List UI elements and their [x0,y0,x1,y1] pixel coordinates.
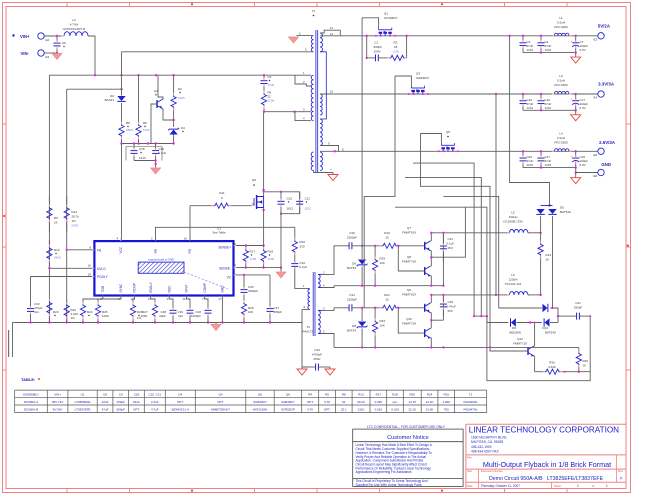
resistor R24 [83,296,103,301]
resistor R22 [66,300,68,304]
svg-text:MILPITAS, CA. 95035: MILPITAS, CA. 95035 [471,440,503,444]
svg-text:R24: R24 [427,392,433,396]
svg-text:Q10: Q10 [406,317,412,321]
wire Q9 emitter out [431,319,443,321]
svg-text:R30: R30 [549,361,555,365]
svg-text:FB: FB [97,248,101,252]
svg-text:10K: 10K [380,324,385,328]
wire R5 to T1 pin3 [264,111,295,113]
wire stair net D [465,207,487,316]
capacitor C1 [367,57,376,59]
svg-text:+: + [571,155,573,159]
wire VIN- [44,52,57,54]
svg-text:16: 16 [184,237,188,241]
ground 2.5V section [571,178,581,184]
wire stair net A [413,163,474,316]
wire VCC net [122,143,174,145]
wire left rail A [48,75,50,322]
capacitor C34 [343,307,349,309]
wire fb loop bottom [487,316,590,381]
transistor Q4 [158,75,163,99]
wire D2 to R8 [121,103,123,119]
svg-text:Opt: Opt [34,310,39,314]
svg-text:See Table: See Table [212,231,226,235]
svg-text:0805: 0805 [72,224,79,228]
svg-text:PA0173: PA0173 [303,330,314,334]
capacitor C16 [540,94,542,101]
svg-text:1206: 1206 [143,128,150,132]
wire SENSE- [236,267,281,269]
svg-text:17: 17 [218,297,222,301]
svg-text:R15: R15 [300,240,306,244]
svg-text:C20, C21: C20, C21 [148,392,161,396]
svg-text:C31: C31 [448,237,454,241]
transformer T2 core [313,272,315,336]
svg-text:0.1uF: 0.1uF [300,265,308,269]
terminal E4 [598,91,604,97]
svg-text:1206: 1206 [268,257,275,261]
resistor R9 [48,196,50,207]
transistor Q10 FMMT718 [398,308,424,333]
terminal E2 VIN+ [12,34,14,36]
svg-text:PA2649NL: PA2649NL [464,400,479,404]
svg-text:R18: R18 [392,392,398,396]
svg-text:R17: R17 [376,392,382,396]
svg-text:R24: R24 [87,310,93,314]
svg-text:E1: E1 [594,38,598,42]
capacitor C20 [280,192,282,202]
svg-text:0.1uF: 0.1uF [447,242,455,246]
capacitor C38 [169,296,173,302]
svg-text:SFST: SFST [185,284,189,292]
capacitor C10 [522,94,524,101]
svg-text:1K: 1K [54,221,58,225]
svg-text:10K: 10K [380,261,385,265]
transistor Q7 FMMT619 [425,241,431,251]
svg-text:R20: R20 [409,392,415,396]
svg-text:22.1: 22.1 [341,407,347,411]
resistor R11 [190,205,214,207]
svg-text:C34: C34 [349,293,355,297]
T1 primary winding W3 [311,152,313,171]
svg-text:E6: E6 [594,174,598,178]
svg-text:0805: 0805 [54,256,61,260]
wire drive loop channel1 [395,207,465,257]
wire fb loop [579,316,590,372]
svg-text:BAT54A: BAT54A [560,210,571,214]
svg-text:PG: PG [188,248,192,253]
wire FB [67,249,95,251]
svg-text:100V: 100V [374,50,381,54]
wire T1 pins9/8 tie [320,146,338,152]
svg-text:GND: GND [221,285,225,293]
U1 pin salmon ticks [120,239,121,242]
svg-text:750: 750 [444,407,449,411]
resistor R27 [151,296,155,301]
resistor R4 [173,75,175,85]
resistor R10 [48,240,50,247]
svg-text:0.015: 0.015 [375,407,383,411]
svg-text:Q6: Q6 [286,392,290,396]
svg-text:GND: GND [601,162,611,167]
wire fb net [474,315,487,317]
svg-text:Date:: Date: [467,484,473,488]
svg-text:R2: R2 [394,41,398,45]
svg-text:OPT.: OPT. [217,400,224,404]
wire 3.3V rail [339,93,602,95]
inductor L6 [496,294,510,296]
svg-text:exposed pad is GND: exposed pad is GND [148,258,174,262]
svg-text:15: 15 [88,273,92,277]
capacitor C33 [30,277,32,304]
wire D5 right down [552,216,554,308]
svg-text:2200pF: 2200pF [347,298,357,302]
customer notice box [353,429,463,486]
capacitor C18 [133,144,135,151]
diode D9 B0520W [487,322,508,324]
svg-text:1210: 1210 [527,106,534,110]
resistor R26 [133,296,135,301]
capacitor C25 [575,151,577,158]
svg-text:Q8: Q8 [407,255,411,259]
svg-text:A: A [620,476,623,481]
inductor L5 [431,232,510,234]
resistor R19 [374,246,376,259]
svg-text:R18: R18 [268,250,274,254]
diode D6 BAT54 [361,246,363,259]
diode D5 BAT54A [541,205,553,207]
wire L2 to bus [88,36,95,75]
svg-text:1206: 1206 [393,50,400,54]
svg-text:25V: 25V [448,246,453,250]
svg-text:R17: R17 [250,250,256,254]
svg-text:File: File [467,455,472,459]
svg-text:D4: D4 [181,126,185,130]
svg-text:0.47uF: 0.47uF [447,305,457,309]
wire channel2 top tie [431,294,496,296]
svg-text:PA2647NL: PA2647NL [464,407,479,411]
svg-text:Si4840DY: Si4840DY [281,400,295,404]
svg-text:OSC: OSC [167,285,171,293]
svg-text:HCP0703-4R7-R: HCP0703-4R7-R [63,27,87,31]
svg-text:1206: 1206 [250,257,257,261]
capacitor C27 [540,151,542,158]
svg-text:1210: 1210 [545,106,552,110]
svg-text:Applications Engineering For A: Applications Engineering For Assistance. [356,470,413,474]
svg-text:VIN-: VIN- [21,51,30,56]
svg-text:1%: 1% [71,316,76,320]
svg-text:OPT.: OPT. [177,400,184,404]
wire T1 pins1/2 box [295,74,311,76]
svg-text:LT3837EFE: LT3837EFE [75,407,91,411]
svg-text:0.1uF: 0.1uF [159,151,167,155]
ground 5V section [575,53,577,58]
svg-text:Q6: Q6 [252,178,256,182]
ground below C6 [52,54,62,60]
svg-text:Thursday, October 11, 2007: Thursday, October 11, 2007 [481,484,520,488]
capacitor C41 [558,315,570,317]
svg-text:15: 15 [385,298,389,302]
svg-text:FMMT619: FMMT619 [402,293,416,297]
svg-text:R11: R11 [219,191,225,195]
svg-text:680pF: 680pF [274,310,283,314]
svg-text:FMMT718: FMMT718 [402,322,416,326]
svg-text:13.0K: 13.0K [426,407,434,411]
svg-text:BZX84C11-V: BZX84C11-V [172,407,189,411]
wire T1 pin3/4 tie [295,112,306,121]
svg-text:ASSEMBLY: ASSEMBLY [23,392,39,396]
wire VC [236,274,270,276]
resistor R12 [66,196,68,207]
svg-text:Document Number: Document Number [481,469,503,473]
capacitor C21 [299,192,301,202]
svg-text:R8: R8 [342,392,346,396]
wire channel2 mid [358,307,380,309]
svg-text:12: 12 [330,32,334,36]
wire channel1 input [322,246,343,275]
inductor L2 [64,32,88,36]
svg-text:9V-36V: 9V-36V [53,407,63,411]
wire 5V lower rail [523,52,576,54]
svg-text:E5: E5 [594,153,598,157]
svg-text:C8: C8 [103,392,107,396]
svg-text:C18: C18 [134,392,140,396]
capacitor C30 [343,245,349,247]
wire bottom bus [13,322,303,324]
svg-text:12.4K: 12.4K [426,400,434,404]
svg-text:L6: L6 [511,273,515,277]
wire D5 left to L5 [528,232,541,234]
svg-text:R23: R23 [380,319,386,323]
zener diode D4 [173,120,175,127]
title block frame [466,424,626,488]
transistor Q8 FMMT718 [398,246,424,271]
capacitor C4 [540,36,542,43]
svg-text:120uH: 120uH [509,278,518,282]
transformer T2 primary winding [308,289,310,310]
svg-text:91: 91 [342,400,346,404]
svg-text:Demo Circuit 950A-A/B: Demo Circuit 950A-A/B [489,476,543,482]
svg-text:330uH: 330uH [509,215,518,219]
svg-text:6.3V: 6.3V [580,106,586,110]
svg-text:PGDLY: PGDLY [97,275,108,279]
svg-text:OPT.: OPT. [133,407,140,411]
svg-text:LTC CONFIDENTIAL - FOR CUSTOME: LTC CONFIDENTIAL - FOR CUSTOMER USE ONLY [367,425,446,429]
svg-text:BAT54: BAT54 [347,329,356,333]
wire 5V to D5 [510,36,550,206]
resistor R14 [540,233,542,244]
svg-text:1630 McCARTHY BLVD.: 1630 McCARTHY BLVD. [471,436,507,440]
svg-text:0.025: 0.025 [375,400,383,404]
capacitor C7 [575,36,577,43]
svg-text:C1: C1 [375,41,379,45]
svg-text:560pF: 560pF [116,407,125,411]
wire SENSE+ [236,245,264,247]
svg-text:11: 11 [233,263,236,267]
resistor R8 [121,119,123,124]
resistor R30 [539,371,545,373]
wire Q9/Q10 stack [430,295,432,303]
svg-text:R26: R26 [443,392,449,396]
resistor R16 [380,245,382,247]
svg-text:OPT.: OPT. [307,400,314,404]
svg-text:1.00K: 1.00K [442,400,450,404]
table grid [15,390,487,413]
svg-text:3300pF: 3300pF [248,289,258,293]
svg-text:VIN+: VIN+ [54,392,61,396]
svg-text:Q12: Q12 [517,337,523,341]
svg-text:C21: C21 [305,196,311,200]
resistor R5 [263,89,265,93]
svg-text:1: 1 [606,484,608,488]
wire T1 pin7 ground [314,171,334,173]
wire T2 pin6 to bus [302,310,310,323]
svg-text:Sheet: Sheet [554,484,561,488]
svg-text:FMMT619: FMMT619 [402,231,416,235]
resistor R17 [245,246,247,250]
svg-text:1812: 1812 [305,207,312,211]
wire Q5 gate [421,134,442,144]
terminal E1 [598,33,604,39]
wire left rail B [66,89,68,322]
svg-text:10: 10 [330,90,334,94]
svg-text:Q4: Q4 [219,392,223,396]
svg-text:1210: 1210 [545,163,552,167]
svg-text:FP2-S200: FP2-S200 [554,25,568,29]
package box C18 C19 [126,147,162,161]
svg-text:1000pF: 1000pF [191,314,201,318]
svg-text:33pF: 33pF [159,314,166,318]
svg-text:R10: R10 [54,248,60,252]
svg-text:1K: 1K [583,364,587,368]
wire secondary gnd to E6 [575,168,577,178]
svg-text:0805: 0805 [126,128,133,132]
svg-text:4.7uF: 4.7uF [151,407,159,411]
resistor R28 [243,297,245,303]
T1 primary winding W1 [311,36,313,52]
svg-text:1210: 1210 [139,156,146,160]
wire main VIN bus [49,74,295,76]
inductor L1 [554,33,569,36]
svg-text:BAT54S: BAT54S [545,331,556,335]
ground at T1 pin5 [289,37,299,43]
svg-text:1%: 1% [72,219,77,223]
svg-text:6.3V: 6.3V [580,163,586,167]
wire Q4 base [151,104,157,144]
svg-text:22.1K: 22.1K [408,407,416,411]
svg-text:R6: R6 [143,121,147,125]
svg-text:150K: 150K [140,314,147,318]
svg-text:E2: E2 [46,38,50,42]
wire 3.3V bias drop [495,94,497,295]
wire caps bottom [134,160,156,162]
capacitor C40 [205,296,208,302]
svg-text:121K: 121K [358,407,365,411]
svg-text:36V-72V: 36V-72V [52,400,64,404]
svg-text:L3: L3 [559,74,563,78]
svg-text:C9: C9 [268,75,272,79]
svg-text:D6: D6 [352,262,356,266]
inductor L4 [554,149,569,152]
capacitor C9 [263,75,265,81]
resistor R2 [387,57,390,59]
svg-text:1: 1 [577,484,579,488]
svg-text:C36: C36 [448,300,454,304]
svg-text:D8: D8 [352,324,356,328]
svg-text:Rev: Rev [618,469,623,473]
wire C32 to T2 pin1 [295,272,308,289]
svg-text:D5: D5 [560,206,564,210]
wire L6 to R14 [528,294,541,296]
svg-text:R29: R29 [583,359,589,363]
svg-text:D4: D4 [178,392,182,396]
svg-text:Q9: Q9 [407,288,411,292]
capacitor C32 [294,258,296,264]
resistor R21 [380,307,382,309]
svg-text:10: 10 [88,264,92,268]
svg-text:L4: L4 [559,132,563,136]
transistor Q9 FMMT619 [425,303,431,313]
svg-text:D9: D9 [512,326,516,330]
svg-text:15: 15 [385,236,389,240]
resistor R25 [98,296,121,301]
T1 primary winding W2 [311,75,313,120]
svg-text:L1: L1 [559,16,563,20]
svg-text:UVLO: UVLO [97,267,106,271]
svg-text:C18: C18 [139,147,145,151]
ground below bus [215,323,217,325]
svg-text:SYNC: SYNC [119,283,123,293]
wire T1 pin6 [122,51,314,53]
wire channel1 mid [358,245,380,247]
svg-text:R13: R13 [358,392,364,396]
svg-text:25V: 25V [448,309,453,313]
svg-text:Multi-Output Flyback in 1/8 Br: Multi-Output Flyback in 1/8 Brick Format [483,460,611,469]
capacitor C37 [269,275,271,303]
svg-text:T1: T1 [469,392,473,396]
T1 secondary S1 [320,33,322,52]
T1 secondary S4 [320,152,322,171]
svg-text:4.7K: 4.7K [324,400,330,404]
wire stair net B [405,178,481,317]
capacitor C17 [575,94,577,101]
transformer T2 secondary bottom [318,310,320,333]
svg-text:250V: 250V [313,357,320,361]
svg-text:VC: VC [227,275,232,279]
wire 3.3V lower rail [523,109,576,111]
svg-text:4.7K: 4.7K [307,407,313,411]
capacitor C39 [187,296,191,302]
svg-text:Q5: Q5 [258,392,262,396]
T1 secondary S3 [320,119,322,146]
ground right of C43 [329,367,331,369]
svg-text:opt.: opt. [392,400,397,404]
svg-text:L2: L2 [72,18,76,22]
svg-text:LT3825EFE/LT3837EFE: LT3825EFE/LT3837EFE [547,476,604,482]
wire T1 pins11/12 [320,30,340,33]
transistor Q12 FMMT718 [528,346,534,357]
svg-text:Opt: Opt [178,314,183,318]
svg-text:E3: E3 [46,55,50,59]
wire stair net Q5 gate [421,134,529,352]
terminal E6 GND [598,169,604,175]
svg-text:18: 18 [394,45,398,49]
transistor Q1 [379,28,392,36]
svg-text:408-432-1900: 408-432-1900 [471,445,492,449]
svg-text:B0520W: B0520W [509,331,521,335]
svg-text:1206: 1206 [268,83,275,87]
svg-text:R12: R12 [72,210,78,214]
